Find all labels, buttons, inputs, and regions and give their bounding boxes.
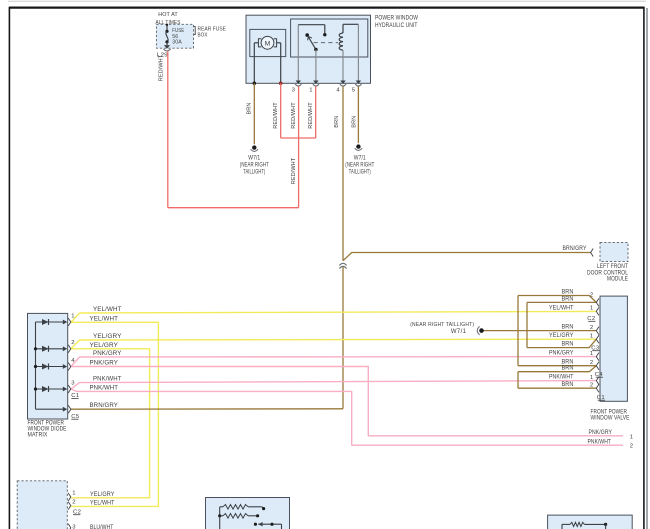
- svg-text:2: 2: [590, 382, 594, 388]
- svg-text:RED/WHT: RED/WHT: [291, 102, 297, 129]
- svg-text:BRN: BRN: [562, 290, 574, 296]
- svg-text:YEL/GRY: YEL/GRY: [90, 343, 119, 349]
- svg-text:(NEAR RIGHT: (NEAR RIGHT: [345, 162, 374, 168]
- svg-text:4: 4: [336, 87, 340, 93]
- svg-text:RED/WHT: RED/WHT: [291, 157, 297, 184]
- svg-text:BLU/WHT: BLU/WHT: [90, 525, 114, 529]
- svg-text:PNK/GRY: PNK/GRY: [93, 351, 122, 357]
- svg-text:BRN: BRN: [562, 296, 574, 302]
- svg-text:2: 2: [590, 360, 594, 366]
- svg-text:1: 1: [309, 87, 313, 93]
- svg-text:YEL/WHT: YEL/WHT: [93, 307, 122, 313]
- svg-text:DOOR CONTROL: DOOR CONTROL: [587, 270, 628, 276]
- svg-text:YEL/WHT: YEL/WHT: [90, 316, 119, 322]
- svg-text:BRN: BRN: [562, 342, 574, 348]
- svg-text:M: M: [265, 40, 271, 47]
- svg-text:YEL/GRY: YEL/GRY: [549, 333, 574, 339]
- svg-text:BRN: BRN: [562, 382, 574, 388]
- svg-text:PNK/GRY: PNK/GRY: [589, 430, 613, 436]
- svg-text:BRN: BRN: [351, 116, 357, 128]
- svg-text:2: 2: [630, 443, 634, 449]
- svg-text:WINDOW VALVE: WINDOW VALVE: [591, 415, 630, 421]
- svg-text:BRN: BRN: [334, 116, 340, 128]
- svg-text:PNK/WHT: PNK/WHT: [90, 385, 119, 391]
- svg-text:LEFT FRONT: LEFT FRONT: [597, 264, 628, 270]
- svg-text:MATRIX: MATRIX: [28, 433, 48, 439]
- svg-text:BRN: BRN: [562, 325, 574, 331]
- svg-text:1: 1: [590, 351, 594, 357]
- svg-text:PNK/WHT: PNK/WHT: [93, 377, 122, 383]
- svg-text:MODULE: MODULE: [607, 277, 628, 283]
- svg-text:WINDOW DIODE: WINDOW DIODE: [28, 427, 67, 433]
- svg-text:BOX: BOX: [198, 33, 208, 39]
- svg-text:5: 5: [352, 87, 356, 93]
- svg-text:1: 1: [630, 435, 634, 441]
- svg-text:(NEAR RIGHT: (NEAR RIGHT: [240, 162, 269, 168]
- svg-text:HOT AT: HOT AT: [158, 12, 178, 18]
- svg-text:3: 3: [71, 380, 75, 386]
- svg-text:RED/WHT: RED/WHT: [308, 102, 314, 129]
- svg-text:FRONT POWER: FRONT POWER: [28, 420, 65, 426]
- svg-text:BRN/GRY: BRN/GRY: [563, 246, 587, 252]
- svg-text:PNK/GRY: PNK/GRY: [549, 351, 574, 357]
- svg-text:FRONT POWER: FRONT POWER: [591, 409, 628, 415]
- svg-text:3: 3: [72, 525, 76, 529]
- svg-text:RED/WHT: RED/WHT: [273, 102, 279, 129]
- svg-text:YEL/WHT: YEL/WHT: [549, 305, 574, 311]
- svg-text:HYDRAULIC UNIT: HYDRAULIC UNIT: [375, 23, 418, 29]
- svg-text:RED/WHT: RED/WHT: [159, 54, 165, 81]
- svg-text:(NEAR RIGHT TAILLIGHT): (NEAR RIGHT TAILLIGHT): [410, 322, 474, 328]
- svg-text:YEL/GRY: YEL/GRY: [90, 492, 115, 498]
- svg-text:3: 3: [292, 87, 296, 93]
- svg-text:BRN/GRY: BRN/GRY: [90, 403, 119, 409]
- svg-text:1: 1: [72, 491, 76, 497]
- svg-text:W7/1: W7/1: [248, 155, 260, 161]
- svg-text:1: 1: [71, 313, 75, 319]
- svg-text:W7/1: W7/1: [354, 155, 366, 161]
- svg-text:YEL/GRY: YEL/GRY: [93, 334, 122, 340]
- svg-text:W7/1: W7/1: [451, 329, 467, 335]
- svg-text:PNK/GRY: PNK/GRY: [90, 361, 119, 367]
- svg-text:4: 4: [71, 358, 75, 364]
- svg-text:REAR FUSE: REAR FUSE: [198, 27, 227, 33]
- svg-text:POWER WINDOW: POWER WINDOW: [375, 16, 418, 22]
- svg-text:TAILLIGHT): TAILLIGHT): [349, 169, 371, 175]
- svg-text:30A: 30A: [172, 40, 182, 46]
- svg-text:BRN: BRN: [247, 103, 253, 115]
- svg-text:1: 1: [590, 375, 594, 381]
- svg-text:YEL/WHT: YEL/WHT: [90, 501, 115, 507]
- svg-text:2: 2: [72, 499, 76, 505]
- svg-text:2: 2: [71, 340, 75, 346]
- svg-text:PNK/WHT: PNK/WHT: [549, 375, 574, 381]
- svg-text:1: 1: [590, 306, 594, 312]
- svg-text:TAILLIGHT): TAILLIGHT): [243, 169, 265, 175]
- svg-text:2: 2: [590, 293, 594, 299]
- svg-text:PNK/WHT: PNK/WHT: [588, 439, 612, 445]
- svg-text:2: 2: [590, 325, 594, 331]
- svg-text:1: 1: [590, 333, 594, 339]
- svg-text:BRN: BRN: [562, 366, 574, 372]
